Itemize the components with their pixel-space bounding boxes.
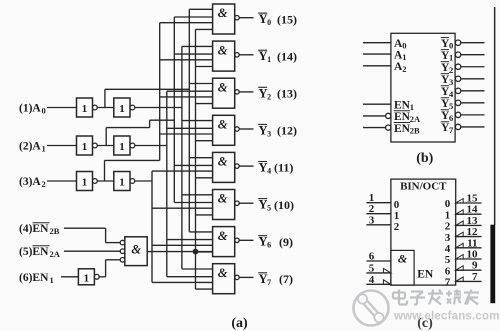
svg-text:9: 9 — [472, 260, 478, 272]
svg-text:3: 3 — [449, 77, 453, 87]
svg-text:2A: 2A — [410, 114, 421, 124]
svg-text:2A: 2A — [50, 249, 61, 259]
svg-text:(6)EN: (6)EN — [19, 272, 49, 284]
svg-text:2: 2 — [267, 92, 271, 101]
svg-text:&: & — [218, 192, 228, 206]
svg-text:1: 1 — [402, 52, 406, 62]
svg-text:1: 1 — [82, 141, 88, 153]
svg-text:2: 2 — [445, 221, 451, 233]
svg-text:1: 1 — [119, 103, 125, 115]
svg-text:(13): (13) — [277, 87, 297, 101]
svg-text:EN: EN — [394, 111, 411, 123]
svg-text:1: 1 — [119, 141, 125, 153]
svg-text:6: 6 — [445, 265, 451, 277]
svg-text:(10): (10) — [274, 198, 294, 212]
svg-text:12: 12 — [467, 226, 479, 238]
svg-text:1: 1 — [42, 144, 46, 154]
svg-text:2: 2 — [449, 65, 453, 75]
svg-text:&: & — [218, 266, 228, 280]
svg-text:&: & — [131, 243, 141, 257]
svg-text:1: 1 — [267, 55, 271, 64]
svg-text:&: & — [218, 80, 228, 94]
svg-text:5: 5 — [449, 101, 453, 111]
svg-text:2: 2 — [394, 221, 400, 233]
svg-text:(b): (b) — [416, 151, 433, 166]
svg-text:(4)EN: (4)EN — [19, 223, 49, 235]
svg-text:1: 1 — [410, 102, 414, 112]
svg-text:1: 1 — [50, 275, 54, 285]
svg-text:1: 1 — [119, 177, 125, 189]
svg-text:www.elecfans.com: www.elecfans.com — [393, 311, 500, 323]
svg-text:7: 7 — [445, 277, 451, 289]
svg-text:5: 5 — [369, 262, 375, 274]
svg-text:4: 4 — [445, 243, 451, 255]
svg-text:6: 6 — [267, 241, 271, 250]
svg-text:(3)A: (3)A — [19, 176, 41, 188]
svg-text:(2)A: (2)A — [19, 141, 41, 153]
svg-text:&: & — [218, 43, 228, 57]
svg-text:0: 0 — [402, 41, 406, 51]
svg-text:(1)A: (1)A — [19, 103, 41, 115]
svg-text:6: 6 — [369, 251, 375, 263]
svg-text:6: 6 — [449, 113, 453, 123]
svg-text:15: 15 — [467, 193, 479, 205]
svg-text:(a): (a) — [231, 316, 248, 331]
svg-text:10: 10 — [467, 249, 479, 261]
svg-text:3: 3 — [445, 232, 451, 244]
svg-text:(12): (12) — [277, 124, 297, 138]
svg-text:7: 7 — [267, 278, 271, 287]
svg-text:&: & — [218, 118, 228, 132]
svg-text:(9): (9) — [279, 235, 293, 249]
svg-text:0: 0 — [42, 106, 46, 116]
svg-text:&: & — [398, 252, 408, 266]
svg-text:(7): (7) — [279, 272, 293, 286]
svg-text:(15): (15) — [277, 12, 297, 26]
svg-text:3: 3 — [267, 129, 271, 138]
svg-text:EN: EN — [394, 123, 411, 135]
svg-text:4: 4 — [267, 167, 271, 176]
svg-text:3: 3 — [369, 214, 375, 226]
svg-text:5: 5 — [267, 204, 271, 213]
svg-text:0: 0 — [445, 198, 451, 210]
svg-text:EN: EN — [417, 269, 434, 281]
svg-text:2: 2 — [402, 64, 406, 74]
svg-text:1: 1 — [82, 103, 88, 115]
svg-text:1: 1 — [445, 209, 451, 221]
svg-text:&: & — [218, 155, 228, 169]
svg-text:(5)EN: (5)EN — [19, 246, 49, 258]
svg-text:1: 1 — [449, 53, 453, 63]
svg-text:1: 1 — [84, 272, 90, 284]
svg-text:2B: 2B — [50, 226, 60, 236]
svg-text:14: 14 — [467, 204, 479, 216]
svg-text:5: 5 — [445, 254, 451, 266]
svg-text:1: 1 — [82, 177, 88, 189]
svg-text:13: 13 — [467, 215, 479, 227]
svg-text:(14): (14) — [277, 49, 297, 63]
svg-text:(11): (11) — [274, 161, 293, 175]
svg-text:2: 2 — [42, 179, 46, 189]
svg-text:4: 4 — [369, 274, 375, 286]
svg-text:0: 0 — [449, 41, 453, 51]
svg-text:0: 0 — [267, 18, 271, 27]
svg-text:&: & — [218, 6, 228, 20]
svg-text:7: 7 — [472, 271, 478, 283]
svg-text:BIN/OCT: BIN/OCT — [400, 181, 447, 193]
svg-text:&: & — [218, 229, 228, 243]
svg-text:2B: 2B — [410, 126, 420, 136]
svg-text:11: 11 — [467, 237, 477, 249]
svg-text:EN: EN — [394, 99, 411, 111]
